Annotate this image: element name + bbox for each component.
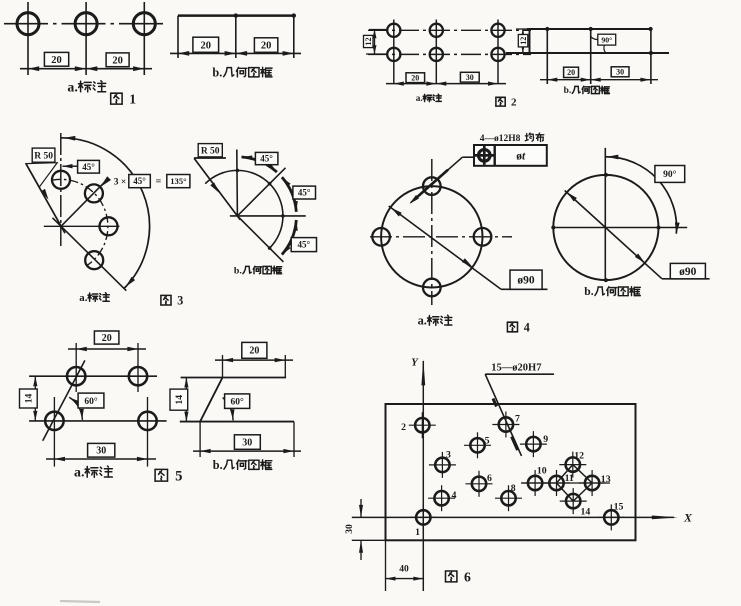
fig5a connect line top row <box>29 375 157 377</box>
fig3a minus45 radius line <box>53 218 127 291</box>
fig4a hole left <box>372 228 390 246</box>
fig2a hole circle bottom col3 <box>491 48 504 61</box>
fig4b phi90 shelf line <box>662 278 710 280</box>
fig4b phi90 box <box>670 263 705 278</box>
fig1b top frame line <box>178 14 294 16</box>
fig4a fcf text phi t <box>516 150 526 162</box>
fig6 Y axis <box>421 359 425 591</box>
fig3a hole circle minus45deg <box>85 251 103 269</box>
fig4a horizontal center line <box>370 236 512 238</box>
fig4a position symbol <box>475 146 494 165</box>
fig3a R50 leader line 135deg <box>26 164 65 234</box>
fig6 hole 15 <box>598 504 625 530</box>
fig4a hole top <box>423 177 441 195</box>
svg-text:øt: øt <box>516 150 526 162</box>
svg-text:b.: b. <box>213 458 223 472</box>
svg-text:11: 11 <box>565 473 574 484</box>
fig6 hole label 8 <box>511 483 516 494</box>
fig1a horizontal center line <box>4 23 166 25</box>
svg-text:X: X <box>683 511 693 525</box>
svg-text:1: 1 <box>415 527 420 538</box>
fig2a hole circle top col3 <box>491 24 504 37</box>
fig5a hole top-right <box>129 367 147 385</box>
fig1a caption a biaozhu <box>67 80 105 95</box>
fig6 hole 3 <box>429 452 456 478</box>
svg-text:3 ×: 3 × <box>114 178 127 188</box>
fig6 leader line through hole 7 <box>485 374 521 456</box>
fig3b 45deg box 1 <box>255 152 278 164</box>
svg-text:20: 20 <box>112 55 123 66</box>
fig6 hole label 10 <box>537 465 547 476</box>
fig6 hole 7 <box>492 412 519 438</box>
fig6 line through holes 10 11 13 <box>521 482 610 484</box>
fig5a hole top-left <box>67 367 85 385</box>
svg-text:15: 15 <box>614 501 624 512</box>
fig2a hole circle top col2 <box>430 24 443 37</box>
fig5b 60deg arc with arrows <box>223 398 235 421</box>
fig3a 45deg box with arrow <box>63 160 100 173</box>
fig4b 90deg arc <box>605 155 680 234</box>
svg-text:13: 13 <box>601 474 611 485</box>
fig6 leader shelf line <box>485 373 554 375</box>
fig4b phi90 diagonal line <box>565 191 662 279</box>
fig6 hole label 15 <box>614 501 624 512</box>
fig5a hole bottom-right <box>138 412 156 430</box>
fig5b bottom dim extension lines <box>200 422 294 457</box>
fig5a 60deg box <box>78 393 104 408</box>
svg-text:90°: 90° <box>663 169 677 180</box>
fig1a dimension line <box>20 66 152 71</box>
fig6 hole label 7 <box>515 414 520 425</box>
fig2a TED box 12 rotated <box>364 35 374 47</box>
fig3a formula equals <box>156 177 162 188</box>
fig2a TED box 30 <box>460 72 479 82</box>
fig1b caption b jihetukuang <box>212 65 272 79</box>
fig5a connect line bottom row <box>29 420 167 422</box>
fig5a left dimension line 14 <box>33 376 37 421</box>
fig4 number label <box>507 320 529 334</box>
fig2a center line row2 <box>368 53 531 55</box>
fig1b node dot middle <box>234 13 238 17</box>
svg-text:20: 20 <box>201 40 212 51</box>
svg-text:60°: 60° <box>84 396 98 407</box>
fig3b R50 box <box>198 144 222 157</box>
svg-text:8: 8 <box>511 483 516 494</box>
fig6 hole 6 <box>466 471 493 497</box>
fig3a formula box 135 <box>167 175 190 188</box>
svg-text:b.: b. <box>564 86 572 96</box>
fig2a dimension line bottom <box>386 82 506 86</box>
svg-text:20: 20 <box>102 333 112 344</box>
fig2a extension line col1 <box>393 20 395 85</box>
fig6 hole label 4 <box>451 490 456 501</box>
svg-text:90°: 90° <box>601 35 612 44</box>
fig6 hole label 3 <box>446 449 451 460</box>
fig3b R50 box shelf <box>194 157 226 159</box>
svg-text:20: 20 <box>51 55 62 66</box>
fig4a phi90 diagonal line <box>389 206 501 289</box>
fig6 hole label 2 <box>401 422 406 433</box>
fig2b dim 12 ext line top <box>516 28 534 30</box>
fig6 hole label 1 <box>415 527 420 538</box>
fig1b TED box 20 first <box>193 37 219 52</box>
svg-text:5: 5 <box>485 435 490 446</box>
svg-text:14: 14 <box>175 395 185 405</box>
svg-text:a.: a. <box>74 466 84 481</box>
svg-text:b.: b. <box>234 265 242 276</box>
fig5a TED box 20 <box>94 331 119 344</box>
fig3b arc crossing dots <box>236 169 285 250</box>
fig6 hole 1 <box>410 504 437 530</box>
fig6 leader 15-phi20H7 text <box>491 362 541 373</box>
svg-text:5: 5 <box>175 469 182 485</box>
fig6 X axis label <box>683 511 693 525</box>
svg-text:ø90: ø90 <box>679 266 697 278</box>
svg-text:ø90: ø90 <box>517 275 535 287</box>
fig3a hole circle top <box>52 171 70 189</box>
fig5b slant line <box>200 378 222 422</box>
fig5a bottom dim extension lines <box>54 397 147 467</box>
fig5b TED box 20 <box>242 342 267 358</box>
fig1a hole circle 3 <box>133 13 155 35</box>
svg-text:3: 3 <box>446 449 451 460</box>
svg-text:30: 30 <box>96 446 106 457</box>
svg-text:4: 4 <box>451 490 456 501</box>
fig6 hole label 13 <box>601 474 611 485</box>
fig5 number label <box>155 469 182 485</box>
fig2b frame vertical 2 <box>546 29 548 84</box>
fig6 hole 5 <box>464 432 491 458</box>
fig5a top dim extension lines <box>76 343 138 392</box>
fig2b frame top line <box>527 28 651 30</box>
fig6 hole 11 <box>543 470 570 496</box>
fig3b R50 leader line 135deg <box>194 158 240 220</box>
fig5a hole bottom-left <box>45 412 63 430</box>
fig4a fcf leader <box>410 157 475 204</box>
fig3b 45deg box 3 <box>291 238 316 252</box>
fig1a extension line hole1 <box>27 2 29 75</box>
svg-text:45°: 45° <box>82 162 95 172</box>
svg-text:60°: 60° <box>231 396 245 407</box>
fig3a formula box 45 <box>129 175 151 188</box>
fig2a caption a biaozhu <box>416 93 442 103</box>
svg-text:2: 2 <box>511 97 517 109</box>
fig2b dimension line bottom <box>540 78 658 82</box>
svg-text:45°: 45° <box>260 154 273 164</box>
fig1a TED box 20 second <box>106 53 129 67</box>
fig1b extension line left <box>177 16 179 58</box>
fig3a R50 box <box>32 148 55 162</box>
fig4b 90deg box <box>655 166 685 183</box>
svg-text:45°: 45° <box>298 188 311 198</box>
fig6 dim 40 line <box>386 577 424 581</box>
fig2a extension line col2 <box>435 20 437 85</box>
fig4a hole bottom <box>423 279 441 297</box>
svg-text:R 50: R 50 <box>201 147 220 157</box>
svg-text:30: 30 <box>345 524 355 534</box>
svg-text:12: 12 <box>519 37 528 45</box>
fig4a phi90 shelf line <box>501 288 548 290</box>
fig1b extension line middle <box>235 16 237 58</box>
fig3a 45deg radius line <box>61 181 106 227</box>
fig1b TED box 20 second <box>254 38 277 53</box>
svg-text:b.: b. <box>212 65 222 79</box>
fig3b 45deg arc segment 1 <box>242 156 277 173</box>
fig6 Y axis label <box>411 357 419 369</box>
fig6 plate left edge extension <box>385 540 387 591</box>
svg-text:6: 6 <box>464 569 471 584</box>
fig3b caption b jihetukuang <box>234 265 282 276</box>
fig2a extension line col3 <box>497 20 499 85</box>
fig2a hole circle bottom col2 <box>430 48 443 61</box>
fig2b TED box 20 <box>564 67 579 77</box>
svg-text:30: 30 <box>466 73 474 82</box>
fig6 diamond connecting holes 11 12 13 14 <box>557 465 593 502</box>
fig4a label 4-phi12H8 <box>480 133 544 144</box>
fig3a hole circle 45deg <box>85 184 103 202</box>
svg-text:b.: b. <box>584 285 593 298</box>
fig2a center line row1 <box>368 29 531 31</box>
svg-text:a.: a. <box>416 93 423 103</box>
fig5b frame bottom line <box>180 421 294 423</box>
fig5b top dim extension lines <box>223 355 286 378</box>
svg-text:14: 14 <box>581 507 591 518</box>
svg-text:4: 4 <box>524 320 530 334</box>
svg-text:45°: 45° <box>133 176 146 186</box>
svg-text:20: 20 <box>411 73 419 82</box>
fig3a caption a biaozhu <box>79 292 109 304</box>
fig3a hole circle 0deg <box>100 217 118 235</box>
fig4a hole right <box>474 228 492 246</box>
fig3 number label <box>161 294 183 308</box>
fig6 hole label 12 <box>574 450 584 461</box>
fig3b 45deg arc segment 3 <box>282 220 298 255</box>
fig2a hole circle top col1 <box>387 24 400 37</box>
fig2b node dots <box>545 27 653 55</box>
fig6 dim 30 arrows <box>359 499 363 560</box>
fig4b vertical line <box>604 148 606 280</box>
fig3a horizontal center line <box>44 225 120 227</box>
fig2a TED box 20 <box>406 73 425 83</box>
fig2b frame vertical 3 <box>590 29 592 84</box>
fig6 X axis <box>352 516 678 520</box>
fig5b TED box 14 rotated <box>170 389 188 410</box>
fig6 hole 8 <box>495 485 522 511</box>
fig6 hole label 6 <box>487 473 492 484</box>
fig6 hole label 9 <box>543 434 548 445</box>
fig1b extension line right <box>293 16 295 58</box>
svg-text:45°: 45° <box>297 240 310 250</box>
fig6 hole 10 <box>522 470 549 496</box>
fig6 bottom edge extension left <box>352 539 386 541</box>
fig5a TED box 30 <box>88 443 115 457</box>
fig3b minus45 radius line <box>237 216 283 262</box>
fig3a formula arrowhead <box>100 176 111 187</box>
fig3a bolt circle arc dashdot <box>52 179 108 265</box>
fig3b 45deg radius line <box>237 168 285 216</box>
fig5a 60deg arc with arrows <box>69 397 84 420</box>
fig6 plate rectangle <box>386 404 636 540</box>
svg-text:30: 30 <box>616 68 624 77</box>
fig6 hole 4 <box>428 485 455 511</box>
fig6 hole 13 <box>579 470 606 496</box>
svg-text:30: 30 <box>242 437 252 448</box>
fig2 number label <box>496 97 517 109</box>
fig6 dim 40 text <box>399 565 409 575</box>
svg-text:6: 6 <box>487 473 492 484</box>
fig4a caption a biaozhu <box>418 314 452 328</box>
svg-text:R 50: R 50 <box>34 151 53 161</box>
fig5a slant line 60deg <box>43 360 85 440</box>
fig1b node dot right <box>292 13 296 17</box>
fig2b frame left vertical <box>529 29 531 53</box>
fig4b caption b jihetukuang <box>584 285 640 298</box>
fig2a dim 12 line with arrows <box>373 30 377 55</box>
fig4a phi90 box <box>510 270 542 289</box>
fig3a vertical center line <box>60 133 62 246</box>
fig2a hole circle bottom col1 <box>387 48 400 61</box>
svg-text:12: 12 <box>364 37 373 45</box>
fig6 hole 14 <box>560 488 587 514</box>
fig3b horizontal radius line <box>230 215 306 217</box>
fig2a dim 12 extension lines <box>366 30 389 55</box>
svg-text:2: 2 <box>401 422 406 433</box>
fig2b TED box 30 <box>611 67 629 77</box>
fig4b circle <box>553 175 658 280</box>
fig4a feature control frame <box>474 145 547 166</box>
svg-text:a.: a. <box>79 292 87 304</box>
scan smudge bottom left <box>60 601 100 602</box>
fig1a TED box 20 first <box>44 52 68 66</box>
fig2b TED box 12 rotated <box>518 35 528 47</box>
fig3a dimension arc 135deg <box>61 136 150 289</box>
fig2b frame right vertical <box>650 29 652 84</box>
fig2b dim 12 line with arrows <box>521 29 525 53</box>
fig6 hole 2 <box>409 412 436 438</box>
fig5a top dimension line 20 <box>68 347 146 351</box>
fig4b horizontal line <box>552 227 687 229</box>
svg-text:15—ø20H7: 15—ø20H7 <box>491 362 541 373</box>
fig1a hole circle 1 <box>17 13 39 35</box>
fig3b 45deg box 2 <box>293 186 316 199</box>
fig5b caption b jihetukuang <box>213 458 272 472</box>
fig3b frame arc <box>205 170 283 248</box>
svg-text:7: 7 <box>515 414 520 425</box>
svg-text:9: 9 <box>543 434 548 445</box>
svg-text:20: 20 <box>249 346 259 357</box>
fig5a TED box 14 rotated <box>20 389 38 408</box>
fig1 number label <box>111 92 137 107</box>
fig2b frame bottom line <box>506 52 669 54</box>
svg-text:=: = <box>156 177 162 188</box>
fig6 hole label 14 <box>581 507 591 518</box>
fig1a extension line hole2 <box>85 2 87 75</box>
fig5b bottom dimension line 30 <box>193 449 301 453</box>
svg-text:a.: a. <box>67 80 77 95</box>
fig6 hole 9 <box>520 431 547 457</box>
fig3b vertical radius line <box>236 150 239 216</box>
fig1a hole circle 2 <box>75 13 97 35</box>
fig4a vertical center line <box>431 159 433 305</box>
fig5b 60deg box <box>225 394 250 409</box>
fig5b TED box 30 <box>234 435 260 450</box>
fig6 hole label 11 <box>565 473 574 484</box>
fig6 dim 30 text rotated <box>345 524 355 534</box>
fig2b 90deg leader curves <box>591 36 606 53</box>
fig5a bottom dimension line 30 <box>46 457 156 461</box>
fig5b left dimension line 14 <box>184 378 188 422</box>
svg-text:40: 40 <box>399 565 409 575</box>
fig5a caption a biaozhu <box>74 466 112 481</box>
svg-text:14: 14 <box>25 394 35 404</box>
svg-text:20: 20 <box>261 41 272 52</box>
fig2b 90deg box <box>598 34 616 45</box>
fig4b quadrant dots <box>551 173 660 282</box>
fig3a R50 flag triangle <box>26 163 57 188</box>
fig1b dimension line <box>170 51 301 56</box>
svg-text:10: 10 <box>537 465 547 476</box>
fig3b 45deg arc segment 2 <box>282 177 298 212</box>
svg-text:1: 1 <box>129 92 136 107</box>
svg-text:a.: a. <box>418 314 427 328</box>
fig5b top dimension line 20 <box>215 358 293 362</box>
svg-text:4—ø12H8: 4—ø12H8 <box>480 134 521 144</box>
svg-text:12: 12 <box>574 450 584 461</box>
fig6 hole 12 <box>559 452 586 478</box>
fig6 number label <box>446 569 471 584</box>
svg-text:135°: 135° <box>170 176 187 186</box>
fig2b caption b jihetukuang <box>564 86 610 96</box>
fig5b frame top line <box>181 377 287 379</box>
svg-text:20: 20 <box>567 68 575 77</box>
svg-text:3: 3 <box>177 294 183 308</box>
fig4a bolt circle <box>381 186 482 287</box>
fig6 hole label 5 <box>485 435 490 446</box>
fig3a formula 3x <box>114 178 127 188</box>
fig1a extension line hole3 <box>143 2 145 75</box>
